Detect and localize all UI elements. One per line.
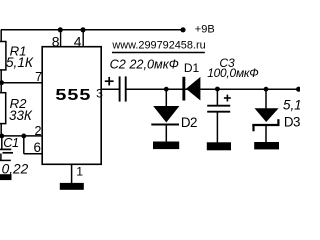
svg-text:C2 22,0мкФ: C2 22,0мкФ bbox=[110, 57, 179, 71]
svg-text:1: 1 bbox=[76, 165, 83, 179]
node junction pin 8 on +9V rail bbox=[58, 27, 63, 32]
wire pin 2 bbox=[1, 135, 42, 137]
capacitor C1 plate 1 bbox=[0, 148, 11, 150]
wire pin 7 bbox=[1, 82, 42, 84]
wire pin 1 lead bbox=[71, 164, 73, 183]
wire D2 bottom lead bbox=[165, 125, 167, 143]
ground C3 bbox=[207, 142, 231, 150]
resistor R1 box bbox=[0, 42, 6, 70]
zener D3 right hook bbox=[277, 119, 279, 125]
node junction C3 bbox=[215, 87, 220, 92]
svg-text:7: 7 bbox=[35, 70, 42, 84]
diode D1 triangle bbox=[186, 77, 200, 101]
op-amp U1 555 IC box bbox=[42, 47, 101, 165]
wire C3 bottom lead bbox=[216, 113, 218, 143]
node junction R2/C1 bbox=[0, 134, 4, 139]
capacitor C2 plate A bbox=[119, 76, 121, 101]
svg-text:6: 6 bbox=[34, 140, 41, 155]
wire pin 6 bbox=[24, 153, 42, 155]
diode D1 cathode bar bbox=[182, 77, 185, 101]
wire stub below C1 bbox=[0, 159, 11, 161]
svg-text:33К: 33К bbox=[9, 108, 33, 123]
zener D3 left hook bbox=[252, 125, 254, 131]
wire pin 3 from IC to C2 bbox=[101, 88, 119, 90]
svg-text:555: 555 bbox=[55, 86, 91, 104]
svg-text:www.299792458.ru: www.299792458.ru bbox=[111, 39, 205, 51]
wire pin 3 rail from C2 to right edge bbox=[127, 88, 298, 90]
zener D3 triangle bbox=[255, 108, 279, 122]
capacitor C2 plate B bbox=[125, 76, 127, 101]
node junction D2 bbox=[164, 87, 169, 92]
wire R1 top lead bbox=[0, 30, 2, 42]
wire D3 top lead bbox=[265, 89, 267, 108]
node junction pin 4 on +9V rail bbox=[80, 27, 85, 32]
capacitor C1 plate 2 bbox=[3, 152, 14, 154]
ground D2 bbox=[153, 142, 179, 150]
wire R2 bottom lead bbox=[0, 124, 2, 136]
svg-text:2: 2 bbox=[34, 124, 41, 138]
svg-text:+9В: +9В bbox=[195, 24, 215, 36]
svg-text:D3: D3 bbox=[284, 114, 300, 129]
wire C1 top lead bbox=[1, 136, 3, 149]
svg-text:D1: D1 bbox=[184, 61, 200, 75]
svg-text:5,1: 5,1 bbox=[283, 98, 300, 113]
node output terminal at right edge bbox=[296, 87, 301, 92]
ground D3 bbox=[254, 142, 279, 149]
svg-text:5,1К: 5,1К bbox=[6, 55, 34, 70]
wire +9V top rail bbox=[1, 29, 183, 31]
capacitor C3 bottom plate bbox=[207, 111, 230, 113]
wire D3 bottom lead bbox=[265, 125, 267, 142]
underline of site label bbox=[112, 52, 205, 54]
wire pin 6 vertical branch bbox=[23, 136, 25, 154]
ground C1 bbox=[0, 174, 12, 180]
svg-text:3: 3 bbox=[96, 87, 103, 101]
svg-text:100,0мкФ: 100,0мкФ bbox=[207, 66, 258, 80]
wire C3 top lead bbox=[216, 89, 218, 105]
node junction R1/R2/pin7 bbox=[0, 80, 4, 85]
wire D2 top lead bbox=[165, 89, 167, 106]
diode D2 triangle bbox=[153, 106, 179, 123]
diode D2 cathode bar bbox=[151, 123, 179, 125]
svg-text:C1: C1 bbox=[3, 136, 19, 150]
node +9V terminal dot bbox=[180, 27, 185, 32]
wire pin 4 lead bbox=[82, 30, 84, 47]
label + polarity of C3 bbox=[224, 95, 231, 102]
zener D3 cathode bar bbox=[252, 124, 279, 126]
svg-text:D2: D2 bbox=[181, 115, 197, 130]
label + polarity of C2 bbox=[105, 77, 114, 86]
node junction pin6 branch bbox=[21, 134, 26, 139]
ground pin 1 bbox=[60, 183, 84, 190]
wire pin 8 lead bbox=[60, 30, 62, 47]
wire R1 bottom lead to R2 bbox=[0, 70, 2, 93]
capacitor C3 top plate bbox=[207, 105, 230, 107]
node junction D3 bbox=[264, 87, 269, 92]
resistor R2 box bbox=[0, 93, 6, 124]
wire C1 lower lead bbox=[0, 154, 2, 161]
